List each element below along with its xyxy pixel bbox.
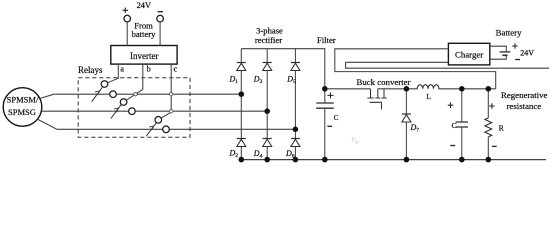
svg-text:SPMSM/: SPMSM/ <box>7 95 39 105</box>
svg-text:c: c <box>174 64 178 74</box>
wire inverter leg c <box>161 64 171 118</box>
top positive rail: inductor to charger corner <box>439 88 496 90</box>
node filter / bottom bus <box>322 157 328 163</box>
filter capacitor C <box>316 89 338 160</box>
relay K3 upper contact (to inverter c) <box>155 117 162 124</box>
bottom bus (negative rail) <box>241 159 546 161</box>
relay K1 inline contact (phase a) <box>110 91 117 98</box>
relay K3 inline contact (phase c) <box>163 126 170 133</box>
inverter U1 <box>111 46 177 65</box>
svg-text:Charger: Charger <box>455 50 483 60</box>
capacitor C (output) <box>448 89 468 160</box>
svg-text:D7: D7 <box>410 123 420 134</box>
svg-text:Relays: Relays <box>78 65 103 75</box>
label From battery <box>132 21 157 39</box>
relay K2 upper contact (to inverter b) <box>120 99 127 106</box>
motor M1 (SPMSM/SPMSG) <box>3 88 42 127</box>
relay K3 blade <box>146 123 156 137</box>
relay enclosure (dashed box) <box>78 78 190 138</box>
node phase a / rectifier <box>239 91 245 97</box>
diode D7 (freewheeling) <box>402 89 419 160</box>
wire terminal+ to inverter <box>126 22 128 46</box>
diode D1 <box>229 63 246 86</box>
svg-text:a: a <box>120 64 124 74</box>
top positive rail: mosfet to inductor <box>387 88 418 90</box>
diode D4 <box>253 139 272 160</box>
wire phase b (motor to rectifier) <box>42 110 268 112</box>
node C out / top rail <box>459 86 465 92</box>
svg-text:D5: D5 <box>286 75 296 86</box>
rectifier column 2 <box>266 49 268 160</box>
node phase c / rectifier <box>293 127 299 133</box>
svg-text:R: R <box>499 123 505 132</box>
svg-text:L: L <box>426 92 431 101</box>
svg-text:b: b <box>147 64 151 74</box>
svg-text:24V: 24V <box>520 48 534 57</box>
svg-text:C: C <box>452 121 457 130</box>
wire terminal- to inverter <box>159 22 161 46</box>
node column2 / bottom bus <box>264 157 270 163</box>
wire phase a (motor to rectifier) <box>41 94 242 98</box>
node R / top rail <box>486 86 492 92</box>
svg-text:D4: D4 <box>253 149 263 160</box>
mosfet Q1 (buck switch) <box>367 89 386 110</box>
relay K1 blade <box>92 87 103 102</box>
rectifier column 3 <box>294 49 296 160</box>
node column1 / bottom bus <box>239 157 245 163</box>
relay K1 upper contact (to inverter a) <box>101 81 108 88</box>
wire charger positive (to top rail) <box>335 49 496 89</box>
relay K2 inline contact (phase b) <box>129 108 136 115</box>
node R / bottom bus <box>486 157 492 163</box>
wire inverter leg a <box>108 64 119 83</box>
node D7 / top rail <box>404 86 410 92</box>
rectifier column 1 <box>240 49 242 160</box>
label Regenerative resistance <box>501 90 547 111</box>
crossing hop leg c over phase b <box>170 110 173 113</box>
relay K2 blade <box>111 104 122 118</box>
top positive rail: filter node to mosfet <box>325 88 371 90</box>
svg-text:D2: D2 <box>229 149 239 160</box>
diode D3 <box>253 63 272 86</box>
svg-text:Inverter: Inverter <box>130 51 158 61</box>
svg-text:SPMSG: SPMSG <box>8 107 36 117</box>
wire charger negative (to right edge) <box>346 62 549 68</box>
svg-text:C: C <box>334 114 339 122</box>
wire phase c (motor to rectifier) <box>38 120 296 130</box>
diode D5 <box>286 63 300 86</box>
battery BT1 24V <box>490 43 535 59</box>
svg-text:battery: battery <box>132 29 157 39</box>
svg-text:Vdc: Vdc <box>351 137 361 145</box>
node column3 / bottom bus <box>293 157 299 163</box>
svg-text:D1: D1 <box>229 75 239 86</box>
svg-text:rectifier: rectifier <box>255 35 282 45</box>
svg-text:resistance: resistance <box>507 101 542 111</box>
diode D6 <box>285 139 300 160</box>
svg-text:D3: D3 <box>253 75 263 86</box>
diode D2 <box>229 139 246 160</box>
wire inverter leg b <box>126 64 142 100</box>
svg-text:24V: 24V <box>137 1 151 10</box>
node D7 / bottom bus <box>404 157 410 163</box>
node filter / top rail <box>322 86 328 92</box>
svg-text:3-phase: 3-phase <box>256 26 283 36</box>
svg-text:Regenerative: Regenerative <box>501 90 547 100</box>
inductor L <box>417 85 439 101</box>
resistor R (regenerative) <box>485 89 505 160</box>
node C out / bottom bus <box>459 157 465 163</box>
svg-text:Battery: Battery <box>496 28 522 38</box>
crossing hop leg b over phase a <box>134 93 137 96</box>
label 3-phase rectifier <box>255 26 283 46</box>
svg-text:Filter: Filter <box>317 35 336 45</box>
terminal - (from battery, negative) <box>157 12 164 22</box>
node phase b / rectifier <box>264 108 270 114</box>
svg-text:Buck converter: Buck converter <box>357 77 411 87</box>
rectifier top bus and down-link to filter node <box>241 49 324 89</box>
crossing hop leg c over phase a <box>170 93 173 96</box>
charger U2 <box>448 43 489 65</box>
terminal + (from battery, positive) <box>123 8 131 22</box>
